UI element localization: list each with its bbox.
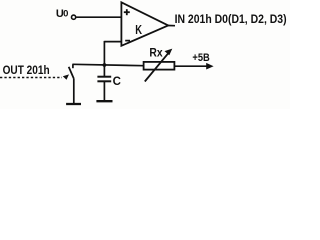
resistor Rx body [144, 62, 175, 70]
wire U0 to comparator plus input [76, 16, 121, 18]
ground switch [66, 103, 81, 105]
control line OUT 201h dashed [0, 77, 62, 79]
wire junction to capacitor [103, 65, 105, 76]
+5V arrowhead [206, 63, 213, 70]
terminal U0 [72, 15, 76, 19]
svg-text:OUT 201h: OUT 201h [3, 65, 50, 77]
switch S1 fixed contact stub [72, 64, 74, 68]
wire switch to ground [73, 79, 75, 104]
junction dot [103, 63, 107, 67]
wire bus node [72, 64, 143, 65]
wire capacitor to ground [103, 82, 105, 101]
ground capacitor [96, 100, 112, 102]
switch S1 lever [69, 67, 74, 79]
capacitor C1 plates [97, 77, 111, 82]
svg-text:C: C [113, 76, 121, 88]
pin label plus [124, 9, 130, 15]
resistor Rx variable arrow [145, 49, 173, 82]
svg-text:0: 0 [63, 8, 68, 19]
wire comparator output [168, 25, 175, 27]
control line arrowhead [63, 74, 69, 79]
svg-text:Rx: Rx [149, 47, 163, 59]
svg-text:+5В: +5В [192, 52, 209, 64]
pin label minus [125, 40, 130, 42]
wire resistor to +5V arrow [174, 65, 207, 67]
node U0 label [56, 8, 68, 20]
svg-text:IN 201h D0(D1, D2, D3): IN 201h D0(D1, D2, D3) [175, 12, 287, 26]
svg-text:K: K [135, 23, 142, 37]
wire minus input horizontal [104, 41, 121, 43]
wire minus input vertical [103, 41, 105, 65]
op-amp U1 comparator K triangle [121, 2, 168, 46]
